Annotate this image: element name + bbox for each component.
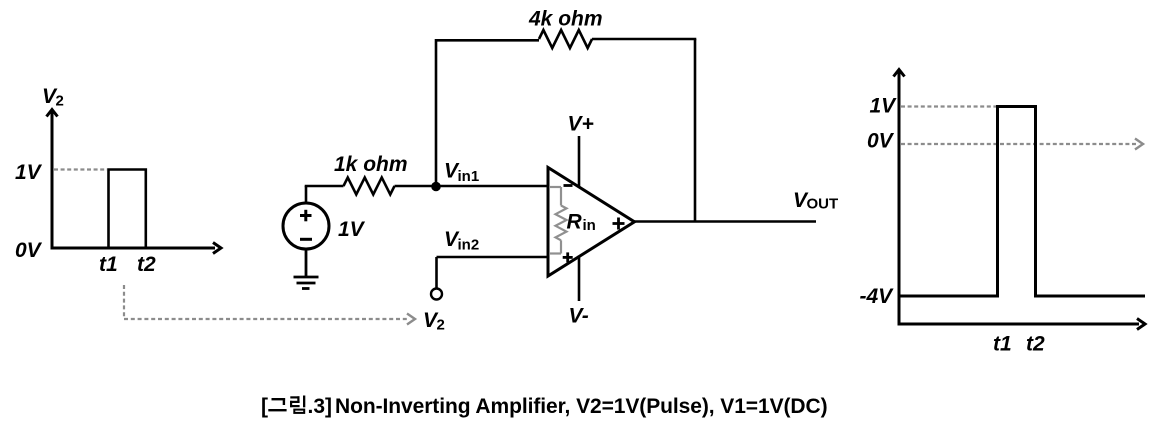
svg-text:OUT: OUT	[807, 196, 839, 213]
svg-text:V+: V+	[568, 113, 594, 136]
svg-text:1V: 1V	[15, 161, 43, 184]
svg-text:2: 2	[56, 93, 64, 110]
svg-text:[: [	[261, 395, 268, 418]
svg-text:0V: 0V	[867, 130, 895, 153]
svg-text:2: 2	[437, 317, 445, 334]
svg-text:t1: t1	[993, 333, 1012, 356]
svg-text:1V: 1V	[338, 218, 366, 241]
svg-text:in2: in2	[458, 237, 480, 254]
svg-text:4k ohm: 4k ohm	[528, 8, 603, 31]
svg-text:in: in	[583, 217, 596, 234]
svg-text:in1: in1	[458, 168, 480, 185]
svg-text:0V: 0V	[15, 239, 43, 262]
svg-text:.3]: .3]	[308, 395, 333, 418]
svg-text:t2: t2	[137, 253, 156, 276]
svg-text:1k ohm: 1k ohm	[334, 153, 408, 176]
svg-text:V-: V-	[569, 305, 589, 328]
svg-text:-4V: -4V	[860, 285, 895, 308]
svg-text:1V: 1V	[870, 95, 898, 118]
svg-text:Non-Inverting Amplifier, V2=1V: Non-Inverting Amplifier, V2=1V(Pulse), V…	[335, 395, 828, 418]
svg-text:t1: t1	[99, 253, 118, 276]
svg-text:R: R	[567, 211, 583, 234]
svg-text:t2: t2	[1026, 333, 1045, 356]
